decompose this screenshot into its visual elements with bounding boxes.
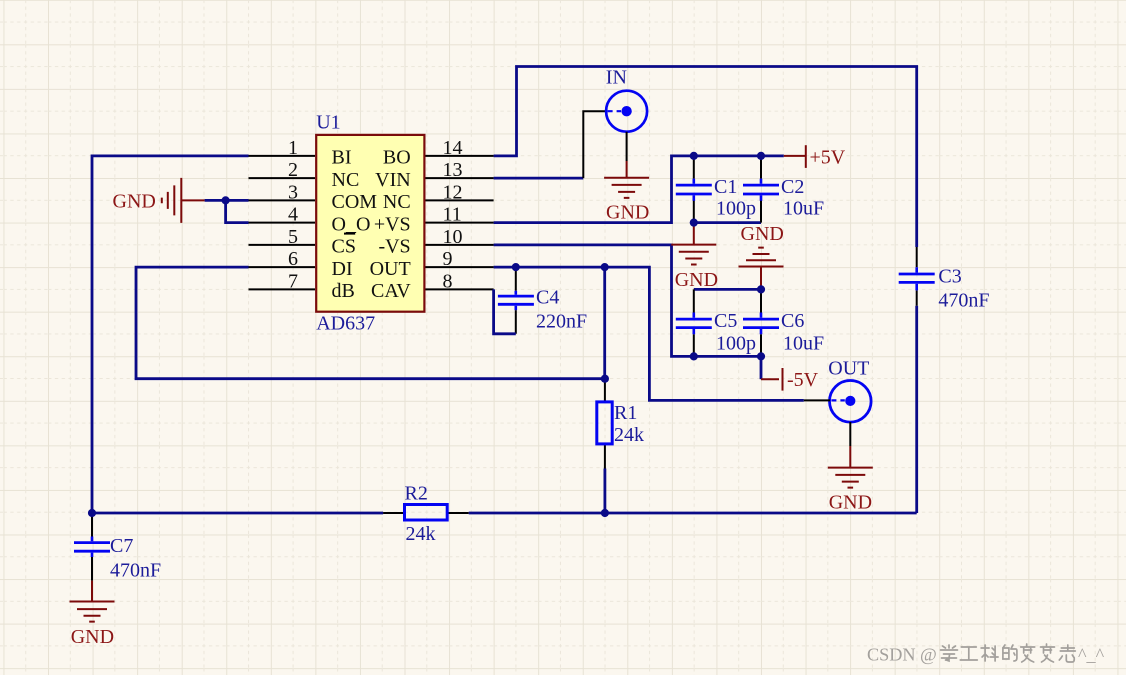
pin 8 CAV [371,270,494,302]
pin 13 VIN [375,159,493,191]
svg-text:U1: U1 [316,112,340,134]
pin 5 CS [249,226,356,258]
svg-text:C4: C4 [536,287,559,309]
svg-text:1: 1 [288,137,298,159]
svg-text:C2: C2 [781,176,804,198]
node junction pin3 [222,196,230,204]
svg-text:GND: GND [113,191,156,213]
svg-text:+5V: +5V [810,146,846,168]
capacitor C2 10uF [743,156,824,223]
node junction C2 top [757,152,765,160]
svg-text:C3: C3 [938,265,961,287]
svg-text:dB: dB [332,280,355,302]
ground GND flipped above C5 C6 [739,223,784,289]
svg-text:13: 13 [443,159,463,181]
svg-text:CSDN @: CSDN @ [867,645,937,665]
pin 6 DI [249,248,353,280]
svg-text:470nF: 470nF [938,289,989,311]
svg-text:C5: C5 [714,310,737,332]
svg-text:IN: IN [606,67,627,89]
svg-text:14: 14 [443,137,463,159]
node junction C7 bus [88,509,96,517]
svg-text:CAV: CAV [371,280,411,302]
pin 3 COM [249,181,378,213]
node junction R1 top [601,375,609,383]
svg-text:3: 3 [288,181,298,203]
svg-text:+VS: +VS [374,213,411,235]
ground GND at IN [604,161,649,223]
svg-text:C7: C7 [110,535,133,557]
wire pin10 -VS net [494,245,761,357]
ground GND at OUT [828,446,873,514]
svg-text:O_O: O_O [332,213,371,235]
node junction C1 bottom [690,219,698,227]
capacitor C5 100p [676,289,756,356]
node junction C4 top [512,263,520,271]
pin 10 -VS [378,226,493,258]
pin 4 O_O [249,204,371,236]
svg-text:6: 6 [288,248,298,270]
ground GND below C1 C2 [671,223,718,292]
wire pin3 COM [205,199,249,202]
node junction C5 bottom [690,352,698,360]
wire pin11 +VS to +5V rail [494,156,784,223]
pin 12 NC [383,181,494,213]
pin 1 BI [249,137,352,169]
svg-text:11: 11 [443,204,462,226]
wire C5 C6 top rail [694,288,761,291]
svg-text:GND: GND [71,626,114,648]
node junction pin9 branch [601,263,609,271]
svg-text:8: 8 [443,270,453,292]
svg-text:9: 9 [443,248,453,270]
wire pin4 O_O [226,200,249,222]
pin 2 NC [249,159,360,191]
wire pin9 to R1 [603,267,606,379]
svg-text:24k: 24k [406,523,436,545]
svg-text:BO: BO [383,147,411,169]
node junction C6 top [757,285,765,293]
svg-text:-VS: -VS [378,236,410,258]
svg-text:10uF: 10uF [783,197,824,219]
power -5V [761,356,819,391]
wire pin9 OUT net [494,267,804,400]
svg-text:VIN: VIN [375,169,411,191]
svg-text:12: 12 [443,181,463,203]
power +5V [784,145,846,168]
svg-text:5: 5 [288,226,298,248]
svg-text:7: 7 [288,270,298,292]
svg-text:CS: CS [332,236,356,258]
svg-text:AD637: AD637 [316,313,375,335]
svg-text:-5V: -5V [787,369,819,391]
svg-text:NC: NC [332,169,360,191]
svg-text:10uF: 10uF [783,332,824,354]
pin 11 +VS [374,204,494,236]
svg-text:4: 4 [288,204,298,226]
svg-text:10: 10 [443,226,463,248]
svg-text:100p: 100p [716,197,756,219]
wire pin6 DI net [136,267,605,379]
resistor R1 24k [597,379,644,469]
wire IN connector stub [583,111,606,178]
connector OUT [804,357,871,446]
node junction R1 bottom bus [601,509,609,517]
wire pin13 VIN [494,177,584,180]
capacitor C6 10uF [743,289,824,356]
ground GND at C7 [70,581,115,649]
svg-text:470nF: 470nF [110,560,161,582]
capacitor C3 470nF [899,247,990,311]
svg-text:R1: R1 [614,402,637,424]
node junction C6 bottom [757,352,765,360]
svg-text:C6: C6 [781,310,804,332]
watermark CSDN [867,644,1105,665]
capacitor C1 100p [676,156,756,223]
svg-text:GND: GND [675,269,718,291]
wire pin1 BI net left bus [92,156,249,513]
svg-text:DI: DI [332,258,353,280]
svg-text:220nF: 220nF [536,311,587,333]
pin 14 BO [383,137,494,169]
svg-text:NC: NC [383,191,411,213]
connector IN [606,67,647,161]
svg-text:OUT: OUT [828,357,869,379]
capacitor C7 470nF [74,513,161,582]
svg-text:2: 2 [288,159,298,181]
svg-text:COM: COM [332,191,378,213]
ic U1 part name AD637 [316,313,375,335]
svg-text:OUT: OUT [370,258,411,280]
wire C1 C2 bottom rail [694,221,761,224]
resistor R2 24k [383,482,469,545]
svg-text:BI: BI [332,147,352,169]
svg-text:24k: 24k [614,424,644,446]
pin 7 dB [249,270,355,302]
svg-text:GND: GND [829,492,872,514]
svg-text:R2: R2 [405,482,428,504]
svg-text:GND: GND [606,201,649,223]
wire bottom bus [92,512,917,515]
svg-text:100p: 100p [716,332,756,354]
svg-text:^_^: ^_^ [1078,645,1105,665]
node junction C1 top [690,152,698,160]
ground GND rotated at pin3 [113,178,205,223]
ic U1 AD637 body [316,135,424,312]
svg-text:C1: C1 [714,176,737,198]
ic U1 designator [316,112,340,134]
wire pin14 BO to top rail and right bus [494,67,917,514]
pin 9 OUT [370,248,494,280]
capacitor C4 220nF [494,267,588,334]
svg-text:GND: GND [741,223,784,245]
wire R1 bottom to bus [604,469,607,514]
